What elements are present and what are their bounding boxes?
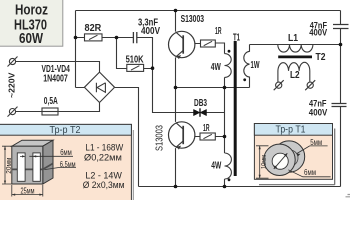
svg-text:510K: 510K: [126, 54, 145, 65]
svg-text:60W: 60W: [19, 30, 44, 47]
svg-text:1R: 1R: [203, 123, 210, 134]
svg-text:1R: 1R: [215, 26, 222, 37]
svg-text:4W: 4W: [211, 160, 221, 171]
svg-text:L1 - 168W: L1 - 168W: [85, 142, 123, 152]
svg-text:6мм: 6мм: [304, 168, 316, 177]
svg-text:25мм: 25мм: [21, 186, 35, 195]
svg-text:L2: L2: [290, 70, 300, 81]
svg-text:82R: 82R: [85, 23, 102, 34]
svg-text:400V: 400V: [309, 108, 328, 119]
svg-text:1N4007: 1N4007: [43, 73, 68, 84]
svg-text:T2: T2: [316, 52, 326, 63]
svg-text:Ø 2x0,3мм: Ø 2x0,3мм: [83, 180, 125, 190]
svg-text:0,5A: 0,5A: [44, 96, 58, 107]
svg-text:1W: 1W: [251, 60, 260, 71]
svg-text:6мм: 6мм: [60, 148, 72, 157]
svg-text:T1: T1: [233, 32, 240, 43]
svg-text:S13003: S13003: [153, 125, 165, 151]
svg-text:6,5мм: 6,5мм: [60, 160, 76, 169]
svg-text:DB3: DB3: [194, 98, 207, 109]
svg-text:L2 - 14W: L2 - 14W: [85, 170, 122, 180]
svg-text:20мм: 20мм: [4, 158, 13, 174]
svg-text:Тр-р Т1: Тр-р Т1: [276, 124, 306, 136]
svg-text:400V: 400V: [309, 27, 328, 38]
svg-text:4W: 4W: [211, 62, 221, 73]
svg-text:5мм: 5мм: [310, 138, 322, 147]
svg-text:S13003: S13003: [181, 14, 205, 25]
svg-text:10мм: 10мм: [259, 155, 268, 169]
svg-text:400V: 400V: [141, 26, 160, 37]
svg-text:Ø0,22мм: Ø0,22мм: [84, 153, 122, 163]
svg-text:L1: L1: [288, 33, 298, 44]
svg-text:Тр-р Т2: Тр-р Т2: [50, 124, 81, 136]
svg-text:~220V: ~220V: [6, 72, 16, 98]
